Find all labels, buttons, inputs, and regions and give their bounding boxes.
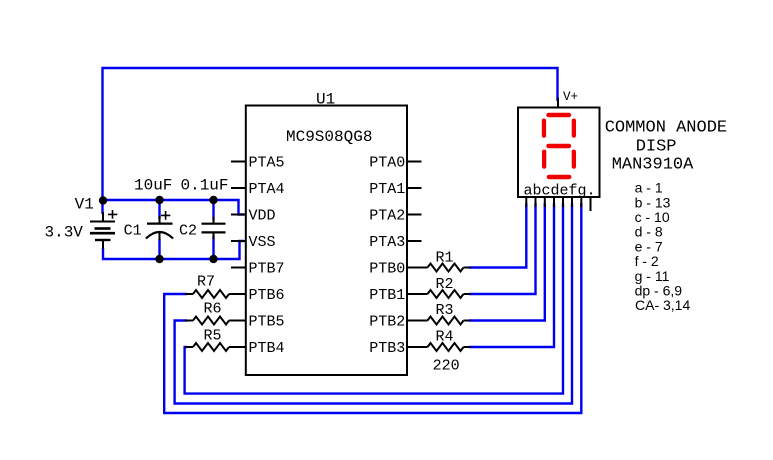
resistor R3	[407, 317, 471, 325]
svg-text:R4: R4	[436, 329, 454, 346]
pin a stub	[525, 197, 527, 207]
wire R4 to display pin d	[469, 203, 554, 347]
svg-text:C1: C1	[124, 223, 142, 240]
pin PTA2 stub	[407, 214, 422, 216]
resistor R1	[407, 264, 471, 272]
svg-text:R2: R2	[436, 276, 454, 293]
wire V+ top loop from battery to display	[103, 68, 558, 214]
segment top-right b	[572, 119, 576, 138]
pin VDD stub	[231, 214, 246, 216]
svg-text:VDD: VDD	[249, 208, 276, 225]
svg-text:PTA0: PTA0	[369, 155, 405, 172]
svg-text:PTB2: PTB2	[369, 314, 405, 331]
svg-text:220: 220	[433, 358, 460, 375]
svg-text:DISP: DISP	[636, 138, 677, 157]
node C1 bottom junction	[155, 255, 163, 263]
svg-text:COMMON ANODE: COMMON ANODE	[605, 119, 727, 138]
node C1 top junction	[155, 196, 163, 204]
pin PTA4 stub	[231, 187, 246, 189]
resistor R2	[407, 290, 471, 298]
svg-text:3.3V: 3.3V	[45, 224, 84, 242]
pin dp stub	[590, 197, 592, 211]
wire C1 bottom lead	[158, 239, 160, 259]
svg-text:d - 8: d - 8	[635, 224, 663, 240]
wire bottom rail battery to C1 C2 and VSS	[103, 241, 244, 259]
svg-text:PTB0: PTB0	[369, 261, 405, 278]
svg-text:PTA1: PTA1	[369, 181, 405, 198]
svg-text:abcdefg.: abcdefg.	[524, 183, 596, 200]
wire R7 to display pin g	[164, 203, 581, 413]
svg-text:b - 13: b - 13	[635, 194, 671, 210]
wire R1 to display pin a	[469, 203, 526, 268]
resistor R4	[407, 343, 471, 351]
resistor R5	[185, 343, 246, 351]
node C2 top junction	[209, 196, 217, 204]
svg-text:a - 1: a - 1	[635, 180, 663, 196]
pin b stub	[535, 197, 537, 207]
capacitor C2	[202, 217, 226, 239]
segment bottom d	[547, 175, 572, 180]
wire C2 top lead	[212, 200, 214, 220]
svg-text:MC9S08QG8: MC9S08QG8	[286, 128, 372, 146]
capacitor C1	[146, 211, 173, 240]
resistor R6	[185, 317, 246, 325]
pin PTA5 stub	[231, 161, 246, 163]
pin V+ stub	[557, 98, 559, 108]
svg-text:c - 10: c - 10	[635, 209, 670, 225]
svg-text:PTB4: PTB4	[249, 340, 285, 357]
svg-text:PTA5: PTA5	[249, 155, 285, 172]
svg-text:VSS: VSS	[249, 234, 276, 251]
svg-text:V1: V1	[75, 196, 94, 214]
svg-text:V+: V+	[563, 90, 578, 104]
node battery top junction	[99, 196, 107, 204]
7-segment display U2 box	[518, 108, 600, 198]
svg-text:PTB6: PTB6	[249, 287, 285, 304]
svg-text:U1: U1	[316, 91, 335, 109]
svg-text:e - 7: e - 7	[635, 238, 663, 254]
pin c stub	[544, 197, 546, 207]
svg-text:PTB7: PTB7	[249, 261, 285, 278]
svg-text:PTB1: PTB1	[369, 287, 405, 304]
pin e stub	[562, 197, 564, 207]
wire C2 bottom lead	[212, 236, 214, 259]
pin d stub	[553, 197, 555, 207]
svg-text:R6: R6	[204, 301, 222, 318]
svg-text:dp - 6,9: dp - 6,9	[635, 283, 683, 299]
svg-text:0.1uF: 0.1uF	[181, 177, 229, 195]
pin PTA0 stub	[407, 161, 422, 163]
svg-text:10uF: 10uF	[134, 177, 172, 195]
pin PTB7 stub	[231, 267, 246, 269]
svg-text:PTB3: PTB3	[369, 340, 405, 357]
node C2 bottom junction	[209, 255, 217, 263]
wire R5 to display pin e	[185, 203, 563, 394]
wire R6 to display pin f	[175, 203, 572, 404]
pin PTB4 stub	[229, 346, 246, 348]
svg-text:PTA3: PTA3	[369, 234, 405, 251]
segment top a	[546, 113, 571, 117]
pin g stub	[580, 197, 582, 207]
pin VSS stub	[231, 240, 246, 242]
resistor R7	[185, 290, 246, 298]
svg-text:C2: C2	[179, 223, 197, 240]
pin PTB5 stub	[229, 320, 246, 322]
svg-text:R1: R1	[436, 250, 454, 267]
wire R3 to display pin c	[469, 203, 545, 321]
svg-text:MAN3910A: MAN3910A	[612, 156, 694, 175]
segment bottom-right c	[572, 150, 576, 169]
segment middle g	[546, 144, 571, 149]
svg-text:g - 11: g - 11	[635, 268, 670, 284]
wire top rail battery to C1 C2 and VDD	[103, 200, 245, 215]
pin PTA1 stub	[407, 187, 422, 189]
battery V1	[90, 210, 117, 249]
segment top-left f	[542, 119, 546, 138]
segment bottom-left e	[542, 150, 546, 169]
wire C1 top lead	[158, 200, 160, 219]
pin f stub	[571, 197, 573, 207]
svg-text:R5: R5	[204, 328, 222, 345]
svg-text:PTA4: PTA4	[249, 181, 285, 198]
svg-text:CA- 3,14: CA- 3,14	[635, 297, 690, 313]
svg-text:PTB5: PTB5	[249, 314, 285, 331]
pin PTA3 stub	[407, 240, 422, 242]
svg-text:R3: R3	[436, 302, 454, 319]
svg-text:R7: R7	[197, 274, 215, 291]
op-amp U1 microcontroller box	[246, 106, 407, 376]
svg-text:PTA2: PTA2	[369, 208, 405, 225]
pin PTB6 stub	[229, 293, 246, 295]
wire R2 to display pin b	[469, 203, 536, 294]
svg-text:f - 2: f - 2	[635, 253, 659, 269]
